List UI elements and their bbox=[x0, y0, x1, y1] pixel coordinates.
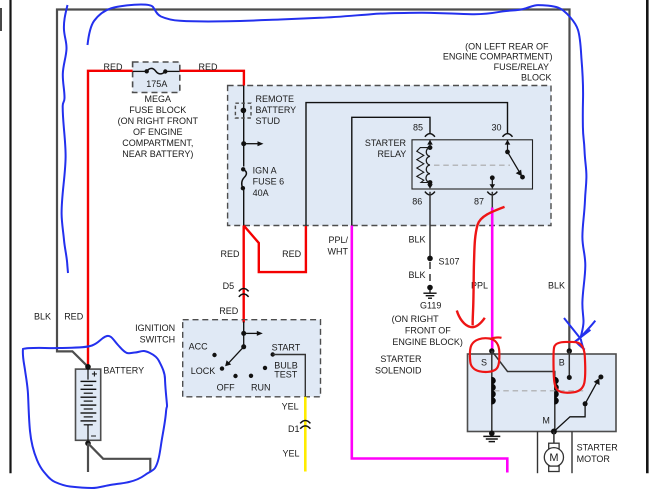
red pen loop around B bbox=[553, 342, 585, 393]
svg-text:STARTER: STARTER bbox=[380, 354, 422, 364]
pin 86 bbox=[412, 183, 435, 207]
wire M to starter motor bbox=[553, 432, 555, 444]
blue pen arrow scribble at B bbox=[564, 318, 581, 339]
starter relay U1 bbox=[365, 138, 533, 189]
svg-text:SWITCH: SWITCH bbox=[140, 334, 176, 344]
relay coil bbox=[417, 145, 433, 185]
svg-text:FUSE/RELAY: FUSE/RELAY bbox=[494, 62, 549, 72]
svg-text:D1: D1 bbox=[288, 424, 300, 434]
blue pen loop around battery bbox=[23, 336, 167, 488]
splice S107 bbox=[427, 256, 459, 267]
wire RED mega fuse to fuse/relay block bbox=[180, 71, 244, 86]
ground at solenoid bbox=[483, 431, 500, 442]
solenoid internal link dashed bbox=[494, 390, 584, 392]
svg-text:OFF: OFF bbox=[217, 382, 235, 392]
solenoid contact switch bbox=[542, 375, 603, 435]
blue pen stroke left bbox=[62, 5, 68, 273]
svg-text:RED: RED bbox=[282, 249, 302, 259]
wire S to hold-in coil bbox=[491, 351, 493, 433]
wire S to pull-in coil bbox=[492, 351, 555, 432]
relay internal link dashed bbox=[434, 164, 510, 166]
svg-text:M: M bbox=[549, 452, 558, 464]
svg-text:BLK: BLK bbox=[548, 281, 565, 291]
wire IGN A fuse to block bottom bbox=[243, 188, 245, 225]
wire to relay pin 30 inside block bbox=[306, 103, 508, 226]
ignition switch contacts bbox=[189, 331, 301, 393]
svg-text:MOTOR: MOTOR bbox=[577, 454, 611, 464]
wire stud feed inside block bbox=[243, 86, 245, 167]
svg-text:YEL: YEL bbox=[282, 449, 299, 459]
starter solenoid bbox=[375, 354, 616, 432]
svg-text:START: START bbox=[272, 343, 301, 353]
wire BLK pin86 to S107 bbox=[408, 192, 430, 256]
svg-text:–: – bbox=[91, 431, 97, 442]
pin 85 bbox=[413, 123, 435, 148]
connector D5 bbox=[223, 281, 249, 297]
svg-text:IGNITION: IGNITION bbox=[135, 323, 175, 333]
wire to relay pin 85 inside block bbox=[352, 117, 430, 225]
wire battery negative down bbox=[87, 443, 89, 472]
svg-text:40A: 40A bbox=[253, 188, 269, 198]
svg-text:WHT: WHT bbox=[328, 247, 349, 257]
svg-text:TEST: TEST bbox=[274, 370, 298, 380]
red pen squiggle at pin 87 bbox=[473, 207, 505, 326]
svg-text:(ON RIGHT FRONT: (ON RIGHT FRONT bbox=[118, 116, 199, 126]
svg-text:30: 30 bbox=[492, 123, 502, 133]
svg-text:(ON LEFT REAR OF: (ON LEFT REAR OF bbox=[465, 42, 549, 52]
svg-text:REMOTE: REMOTE bbox=[256, 94, 295, 104]
svg-text:BATTERY: BATTERY bbox=[103, 366, 144, 376]
svg-text:BLK: BLK bbox=[408, 234, 425, 244]
svg-text:FRONT OF: FRONT OF bbox=[405, 325, 451, 335]
wire battery negative branch bbox=[88, 443, 150, 472]
svg-text:OF ENGINE: OF ENGINE bbox=[133, 127, 183, 137]
svg-text:STARTER: STARTER bbox=[365, 138, 407, 148]
wire RED battery to mega fuse bbox=[88, 71, 133, 367]
svg-text:S107: S107 bbox=[439, 256, 460, 266]
svg-text:ACC: ACC bbox=[189, 341, 209, 351]
svg-text:175A: 175A bbox=[146, 79, 167, 89]
fuse F1 175A bbox=[133, 68, 180, 74]
starter motor bbox=[538, 432, 619, 474]
hold-in coil bbox=[492, 377, 496, 404]
svg-text:BLOCK: BLOCK bbox=[521, 73, 552, 83]
scan edge line left bbox=[9, 0, 11, 473]
svg-text:BLK: BLK bbox=[408, 270, 425, 280]
svg-text:ENGINE BLOCK): ENGINE BLOCK) bbox=[392, 337, 463, 347]
svg-text:PPL/: PPL/ bbox=[328, 235, 348, 245]
wire PPL/WHT from block bbox=[328, 226, 508, 473]
svg-text:LOCK: LOCK bbox=[191, 366, 216, 376]
red pen loop around S bbox=[470, 338, 499, 372]
blue pen stroke top and right bbox=[88, 5, 587, 339]
node junction with branch arrow bbox=[241, 141, 263, 146]
ignition switch block bbox=[135, 320, 320, 397]
svg-text:STUD: STUD bbox=[256, 116, 281, 126]
svg-text:RUN: RUN bbox=[251, 382, 271, 392]
mega fuse block bbox=[118, 62, 199, 159]
svg-text:COMPARTMENT,: COMPARTMENT, bbox=[122, 138, 193, 148]
svg-text:ENGINE COMPARTMENT): ENGINE COMPARTMENT) bbox=[443, 51, 553, 61]
remote battery stud bbox=[235, 94, 296, 126]
svg-text:M: M bbox=[542, 416, 550, 426]
svg-text:NEAR BATTERY): NEAR BATTERY) bbox=[122, 149, 193, 159]
fuse/relay block bbox=[228, 42, 553, 226]
svg-text:S: S bbox=[481, 357, 487, 367]
svg-text:(ON RIGHT: (ON RIGHT bbox=[392, 314, 439, 324]
svg-text:STARTER: STARTER bbox=[577, 443, 619, 453]
svg-text:SOLENOID: SOLENOID bbox=[375, 366, 422, 376]
wire PPL pin87 to solenoid S bbox=[471, 192, 492, 351]
svg-text:D5: D5 bbox=[223, 281, 235, 291]
wire START to box edge bbox=[273, 355, 306, 397]
svg-text:RED: RED bbox=[199, 62, 219, 72]
svg-text:RED: RED bbox=[219, 306, 239, 316]
svg-text:85: 85 bbox=[413, 123, 423, 133]
svg-text:RED: RED bbox=[64, 312, 84, 322]
wire BLK battery to top border bbox=[34, 10, 570, 367]
fuse IGN A FUSE 6 40A bbox=[241, 166, 284, 199]
ground G119 bbox=[392, 285, 463, 347]
svg-text:B: B bbox=[559, 357, 565, 367]
pull-in coil bbox=[555, 377, 559, 404]
svg-text:87: 87 bbox=[474, 196, 484, 206]
wire RED loop to relay feed bbox=[244, 226, 306, 273]
pin 87 bbox=[474, 175, 497, 206]
wire RED fuse output to D5 bbox=[219, 226, 243, 320]
svg-text:FUSE 6: FUSE 6 bbox=[253, 176, 285, 186]
svg-text:FUSE BLOCK: FUSE BLOCK bbox=[129, 105, 186, 115]
scan edge line right bbox=[646, 0, 649, 473]
svg-text:RED: RED bbox=[104, 62, 124, 72]
svg-text:YEL: YEL bbox=[282, 401, 299, 411]
svg-text:+: + bbox=[92, 370, 98, 381]
svg-text:BATTERY: BATTERY bbox=[256, 105, 297, 115]
pin 30 and switch blade bbox=[492, 123, 525, 180]
battery bbox=[76, 364, 145, 446]
svg-text:BLK: BLK bbox=[34, 312, 51, 322]
connector D1 bbox=[288, 420, 310, 433]
wire RED into ignition switch bbox=[242, 320, 244, 323]
svg-text:RELAY: RELAY bbox=[377, 149, 406, 159]
svg-text:IGN A: IGN A bbox=[253, 166, 277, 176]
svg-text:G119: G119 bbox=[420, 300, 441, 310]
wire BLK S107 to G119 (dashed) bbox=[408, 262, 430, 284]
svg-text:RED: RED bbox=[220, 249, 240, 259]
node B terminal bbox=[567, 348, 572, 380]
node S terminal bbox=[489, 348, 494, 353]
svg-text:86: 86 bbox=[412, 196, 422, 206]
svg-text:MEGA: MEGA bbox=[145, 94, 172, 104]
wire YEL bbox=[282, 397, 306, 472]
